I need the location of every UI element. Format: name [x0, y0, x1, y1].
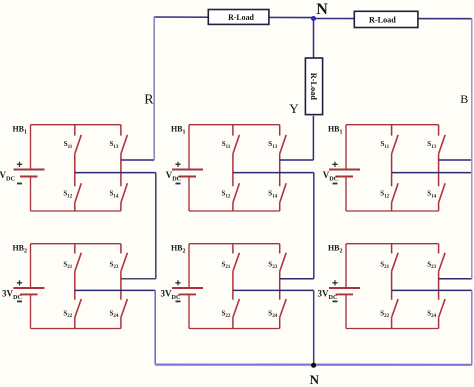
- wire bottom neutral bus: [155, 364, 472, 366]
- switch leg wire (phase B HB2 right leg): [438, 244, 440, 329]
- battery polarity +: [332, 280, 337, 285]
- resistor R-Load (B phase, top right box): [354, 11, 418, 27]
- switch S11 lever: [392, 135, 399, 154]
- switch leg wire (phase B HB1 right leg): [438, 125, 440, 211]
- wire top bus right (node N to B phase): [314, 18, 472, 20]
- wire node N to load (phase Y): [313, 19, 315, 58]
- switch S23 lever: [121, 253, 128, 272]
- switch S14 lever: [121, 183, 128, 202]
- switch S24 lever: [439, 299, 446, 317]
- svg-text:R-Load: R-Load: [369, 15, 396, 24]
- resistor R-Load (Y phase, vertical box): [305, 58, 322, 115]
- wire HB2 mid-leg output to neutral link (Y): [233, 289, 314, 291]
- battery polarity -: [333, 300, 338, 302]
- switch S22 lever: [233, 299, 240, 317]
- wire HB2 right-leg output to series link (Y): [280, 278, 314, 280]
- battery V source (phase R, HB2) plates: [14, 288, 45, 294]
- switch S12 lever: [75, 183, 82, 202]
- node N junction dot (bottom): [311, 363, 316, 368]
- wire HB2 right-leg output to series link (B): [439, 278, 472, 280]
- wire HB1 mid-leg output to series link (B): [392, 172, 472, 174]
- svg-text:R: R: [144, 93, 154, 108]
- switch S11 lever: [75, 135, 82, 154]
- wire HB1 mid-leg output to series link (R): [75, 172, 156, 174]
- H-bridge HB2 phase Y outline (red): [189, 244, 280, 329]
- switch S12 lever: [392, 183, 399, 202]
- switch S24 lever: [280, 299, 287, 317]
- battery polarity +: [17, 280, 22, 285]
- H-bridge HB2 phase R outline (red): [31, 244, 121, 329]
- wire HB1 right-leg output to phase line (R): [121, 159, 154, 161]
- H-bridge HB1 phase R outline (red): [31, 125, 121, 211]
- switch S21 lever: [233, 253, 240, 272]
- battery polarity +: [17, 162, 22, 167]
- switch S22 lever: [75, 299, 82, 317]
- switch leg wire (phase B HB2 left leg): [391, 244, 393, 329]
- resistor R-Load (R phase, top left box): [208, 10, 269, 25]
- wire series link vertical (phase R): [155, 173, 157, 279]
- switch leg wire (phase R HB2 left leg): [74, 244, 76, 329]
- battery V source (phase R, HB1) plates: [14, 170, 45, 177]
- switch S12 lever: [233, 183, 240, 202]
- svg-text:N: N: [316, 1, 328, 18]
- switch leg wire (phase R HB2 right leg): [120, 244, 122, 329]
- battery polarity -: [17, 183, 22, 185]
- switch S13 lever: [439, 135, 446, 154]
- wire series link vertical (phase Y): [313, 173, 315, 279]
- battery polarity -: [176, 300, 181, 302]
- switch S13 lever: [280, 135, 287, 154]
- switch S22 lever: [392, 299, 399, 317]
- switch S14 lever: [280, 183, 287, 202]
- switch leg wire (phase Y HB2 left leg): [232, 244, 234, 329]
- switch leg wire (phase B HB1 left leg): [391, 125, 393, 211]
- switch S21 lever: [392, 253, 399, 272]
- switch leg wire (phase R HB1 right leg): [120, 125, 122, 211]
- wire neutral link vertical (phase Y): [313, 290, 315, 364]
- switch leg wire (phase Y HB2 right leg): [279, 244, 281, 329]
- switch leg wire (phase R HB1 left leg): [74, 125, 76, 211]
- switch S21 lever: [75, 253, 82, 272]
- battery polarity +: [175, 280, 180, 285]
- battery V source (phase Y, HB1) plates: [172, 170, 203, 177]
- battery V source (phase B, HB1) plates: [329, 170, 360, 177]
- battery polarity -: [176, 183, 181, 185]
- wire neutral link vertical (phase B): [471, 291, 473, 365]
- battery polarity -: [333, 183, 338, 185]
- svg-text:Y: Y: [289, 101, 299, 116]
- battery polarity -: [17, 300, 22, 302]
- node N junction dot (top): [311, 16, 316, 21]
- wire load to phase Y output: [312, 116, 314, 160]
- H-bridge HB2 phase B outline (red): [346, 244, 439, 329]
- switch S14 lever: [439, 183, 446, 202]
- switch S13 lever: [121, 135, 128, 154]
- wire HB1 mid-leg output to series link (Y): [233, 172, 314, 174]
- svg-text:N: N: [310, 372, 320, 387]
- wire HB2 mid-leg output to neutral link (B): [392, 289, 472, 291]
- wire phase B vertical line: [471, 19, 473, 279]
- switch leg wire (phase Y HB1 right leg): [279, 125, 281, 211]
- wire HB2 right-leg output to series link (R): [121, 278, 156, 280]
- svg-text:B: B: [460, 92, 468, 106]
- wire phase R vertical line: [153, 17, 155, 160]
- wire top bus left (R phase to node N): [154, 16, 313, 19]
- svg-text:R-Load: R-Load: [309, 73, 318, 101]
- switch S24 lever: [121, 299, 128, 317]
- wire HB1 right-leg output to phase line (Y): [280, 159, 314, 161]
- switch S11 lever: [233, 135, 240, 154]
- H-bridge HB1 phase Y outline (red): [189, 125, 280, 211]
- battery polarity +: [175, 162, 180, 167]
- switch S23 lever: [439, 253, 446, 272]
- battery polarity +: [332, 162, 337, 167]
- switch S23 lever: [280, 253, 287, 272]
- battery V source (phase B, HB2) plates: [329, 288, 360, 294]
- H-bridge HB1 phase B outline (red): [346, 125, 439, 211]
- wire HB1 right-leg output to phase line (B): [439, 159, 472, 161]
- wire HB2 mid-leg output to neutral link (R): [75, 289, 155, 291]
- wire neutral link vertical (phase R): [154, 290, 156, 364]
- svg-text:R-Load: R-Load: [228, 13, 254, 22]
- battery V source (phase Y, HB2) plates: [172, 288, 203, 294]
- switch leg wire (phase Y HB1 left leg): [232, 125, 234, 211]
